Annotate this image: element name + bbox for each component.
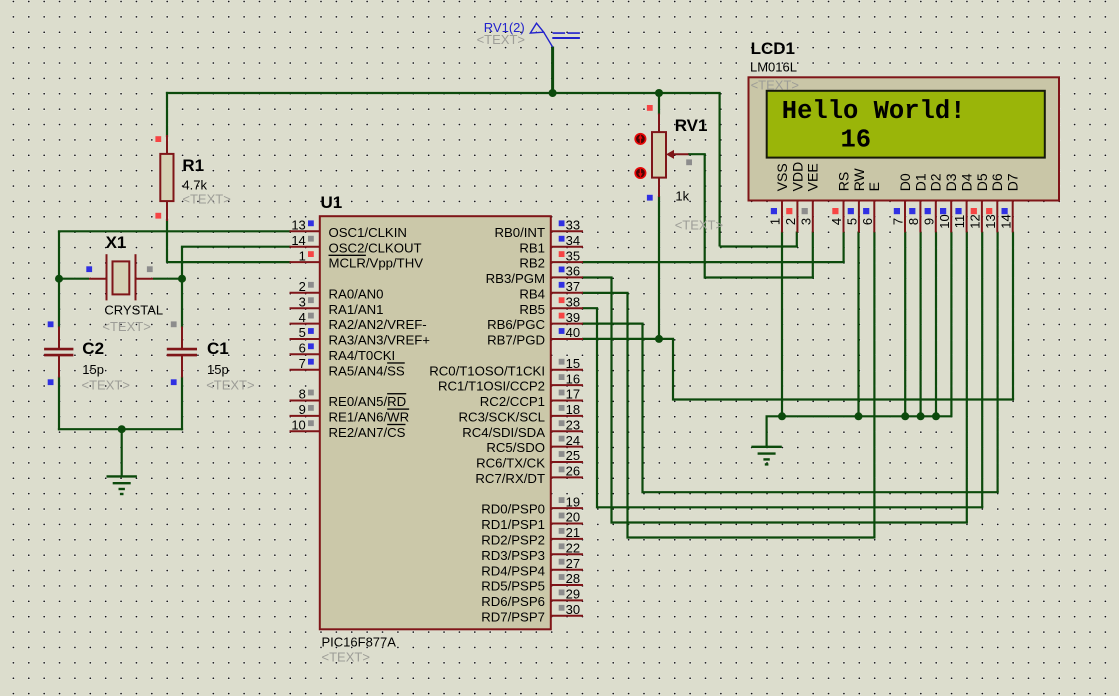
svg-text:30: 30 (566, 602, 580, 617)
svg-text:10: 10 (291, 417, 305, 432)
pin 8 D1 LCD (906, 173, 928, 232)
wire C1 bottom (181, 377, 183, 431)
svg-text:RD3/PSP3: RD3/PSP3 (481, 548, 545, 563)
svg-text:<TEXT>: <TEXT> (102, 319, 150, 334)
svg-text:34: 34 (566, 233, 580, 248)
svg-text:15: 15 (566, 356, 580, 371)
svg-text:2: 2 (299, 279, 306, 294)
svg-text:39: 39 (566, 310, 580, 325)
wire VEE horizontal to LCD pin 3 (705, 276, 814, 278)
svg-text:RC3/SCK/SCL: RC3/SCK/SCL (459, 409, 545, 424)
svg-text:RA1/AN1: RA1/AN1 (329, 302, 384, 317)
svg-text:<TEXT>: <TEXT> (675, 217, 723, 232)
pin 3 VEE LCD (798, 163, 820, 232)
wire RB6 vertical (641, 324, 643, 494)
wire LCD pin 6 riser (873, 232, 875, 538)
pin 25 RC6/TX/CK (476, 448, 583, 470)
svg-text:RC7/RX/DT: RC7/RX/DT (475, 471, 545, 486)
svg-text:CRYSTAL: CRYSTAL (104, 303, 163, 318)
RV1 voltage arrow down (635, 168, 645, 178)
svg-text:RE1/AN6/WR: RE1/AN6/WR (329, 409, 410, 424)
wire LCD VSS down to ground bus (781, 232, 783, 417)
svg-text:21: 21 (566, 525, 580, 540)
pin 27 RD4/PSP4 (481, 556, 583, 578)
junction RV1 bottom / RB7 wire (655, 335, 663, 343)
wire RB4 horizontal to E (628, 536, 876, 538)
pin 2 RA0/AN0 (290, 279, 384, 301)
wire RV1 bottom down to RB7 net (658, 196, 660, 339)
svg-text:RW: RW (851, 167, 867, 191)
LCD LCD1 LM016L body (749, 77, 1060, 200)
svg-text:Hello World!: Hello World! (782, 97, 966, 126)
svg-text:22: 22 (566, 540, 580, 555)
svg-text:16: 16 (841, 126, 872, 155)
svg-text:<TEXT>: <TEXT> (206, 378, 254, 393)
wire RB7 pin 40 out (582, 338, 674, 340)
pin 17 RC2/CCP1 (480, 387, 583, 409)
pin 23 RC4/SDI/SDA (462, 417, 583, 439)
wire LCD pin 2 drop (796, 232, 798, 247)
wire VDD horizontal to LCD pin 2 (720, 245, 798, 247)
svg-text:38: 38 (566, 294, 580, 309)
pot terminal marker RV1(2) (530, 23, 580, 47)
pin 36 RB3/PGM (486, 264, 583, 286)
pin 5 RW LCD (845, 167, 867, 232)
wire R1 bottom down (166, 219, 168, 263)
wire ground bus (766, 415, 953, 417)
wire LCD D0 down to ground bus (904, 232, 906, 417)
wire VEE riser vertical (704, 154, 706, 278)
junction ground bus RW (855, 412, 863, 420)
svg-text:D0: D0 (897, 173, 913, 191)
wire RB7 vertical (672, 339, 674, 401)
wire RB6 horizontal to D6 (643, 491, 999, 493)
svg-text:D2: D2 (928, 173, 944, 191)
svg-text:RB4: RB4 (519, 286, 545, 301)
svg-text:C2: C2 (82, 339, 104, 358)
wire R1 top to rail (166, 92, 168, 137)
pin 35 RB2 (519, 248, 583, 270)
wire crystal left node to X1 pin (59, 278, 89, 280)
capacitor C1 (167, 321, 197, 385)
pin 29 RD6/PSP6 (481, 587, 583, 609)
svg-text:VEE: VEE (805, 163, 821, 191)
ground symbol right (751, 447, 781, 465)
svg-text:RC6/TX/CK: RC6/TX/CK (476, 456, 545, 471)
svg-text:RE0/AN5/RD: RE0/AN5/RD (329, 394, 407, 409)
wire C2/C1 bottom link (58, 428, 183, 430)
svg-text:RE2/AN7/CS: RE2/AN7/CS (329, 425, 406, 440)
svg-text:LCD1: LCD1 (751, 39, 795, 58)
wire X1 pin to crystal right node (153, 278, 182, 280)
wire down to crystal right node (181, 247, 183, 279)
svg-text:RD2/PSP2: RD2/PSP2 (481, 533, 545, 548)
svg-text:MCLR/Vpp/THV: MCLR/Vpp/THV (329, 256, 424, 271)
wire RB7 horizontal to D7 (673, 398, 1014, 400)
resistor R1 (155, 135, 173, 221)
svg-text:11: 11 (952, 215, 967, 229)
svg-text:<TEXT>: <TEXT> (751, 77, 799, 92)
svg-text:PIC16F877A: PIC16F877A (322, 635, 397, 650)
wire down to crystal left node (58, 231, 60, 278)
svg-text:1k: 1k (675, 188, 689, 203)
pin 1 MCLR/Vpp/THV (290, 248, 424, 270)
svg-text:1: 1 (768, 218, 783, 225)
svg-text:RD4/PSP4: RD4/PSP4 (481, 563, 545, 578)
junction ground bus VSS (778, 412, 786, 420)
svg-text:40: 40 (566, 325, 580, 340)
pin 14 D7 LCD (998, 173, 1020, 232)
svg-text:6: 6 (860, 218, 875, 225)
svg-text:RB2: RB2 (519, 256, 545, 271)
IC U1 PIC16F877A body (320, 216, 551, 629)
svg-text:E: E (866, 182, 882, 191)
wire LCD D2 down to ground bus (935, 232, 937, 417)
svg-text:9: 9 (921, 218, 936, 225)
pin 22 RD3/PSP3 (481, 540, 583, 562)
svg-text:RC0/T1OSO/T1CKI: RC0/T1OSO/T1CKI (429, 363, 545, 378)
pin 11 D4 LCD (952, 173, 974, 232)
svg-text:8: 8 (906, 218, 921, 225)
pin 2 VDD LCD (783, 162, 805, 233)
svg-text:RD0/PSP0: RD0/PSP0 (481, 502, 545, 517)
pin 6 E LCD (860, 182, 882, 232)
svg-text:RB5: RB5 (519, 302, 545, 317)
wire C2 bottom (58, 377, 60, 431)
pin 9 D2 LCD (921, 173, 943, 232)
svg-text:RV1: RV1 (675, 116, 708, 135)
pin 3 RA1/AN1 (290, 294, 384, 316)
wire RB3 vertical (610, 278, 612, 524)
ground symbol left (107, 476, 137, 494)
crystal X1 (86, 254, 153, 300)
pin 28 RD5/PSP5 (481, 571, 583, 593)
wire RB4 pin 37 out (582, 292, 629, 294)
pin 19 RD0/PSP0 (481, 494, 583, 516)
svg-text:4.7k: 4.7k (182, 178, 207, 193)
svg-text:24: 24 (566, 433, 580, 448)
wire VDD riser vertical (718, 93, 720, 247)
svg-text:RA4/T0CKI: RA4/T0CKI (329, 348, 396, 363)
svg-text:VSS: VSS (774, 163, 790, 191)
svg-text:R1: R1 (182, 156, 204, 175)
svg-text:LM016L: LM016L (750, 60, 797, 75)
pin 15 RC0/T1OSO/T1CKI (429, 356, 583, 378)
junction crystal left / C2 (55, 275, 63, 283)
pin 34 RB1 (519, 233, 583, 255)
svg-text:D3: D3 (943, 173, 959, 191)
wire LCD pin 3 drop (812, 232, 814, 278)
svg-text:RC4/SDI/SDA: RC4/SDI/SDA (462, 425, 545, 440)
svg-text:<TEXT>: <TEXT> (182, 192, 230, 207)
wire RB3 pin 36 out (582, 276, 613, 278)
junction ground bus D1 (917, 412, 925, 420)
wire LCD pin 11 riser (966, 232, 968, 523)
svg-text:29: 29 (566, 587, 580, 602)
svg-text:VDD: VDD (789, 162, 805, 192)
svg-text:OSC2/CLKOUT: OSC2/CLKOUT (329, 240, 422, 255)
svg-text:5: 5 (299, 325, 306, 340)
svg-text:16: 16 (566, 371, 580, 386)
svg-text:RD6/PSP6: RD6/PSP6 (481, 594, 545, 609)
svg-text:<TEXT>: <TEXT> (322, 650, 370, 665)
pin 16 RC1/T1OSI/CCP2 (438, 371, 583, 393)
svg-text:2: 2 (783, 218, 798, 225)
wire RB2 pin 35 to LCD RS (582, 261, 845, 263)
pin 6 RA4/T0CKI (290, 341, 396, 363)
pin 30 RD7/PSP7 (481, 602, 583, 624)
wire LCD pin 13 riser (996, 232, 998, 493)
svg-text:X1: X1 (106, 233, 127, 252)
wire LCD D1 down to ground bus (919, 232, 921, 417)
wire ground bus stem (765, 416, 767, 446)
svg-text:OSC1/CLKIN: OSC1/CLKIN (329, 225, 407, 240)
svg-text:C1: C1 (207, 339, 229, 358)
svg-text:25: 25 (566, 448, 580, 463)
wire LCD RW down to ground bus (857, 232, 859, 417)
svg-text:RB1: RB1 (519, 240, 545, 255)
pin 9 RE1/AN6/WR (290, 402, 410, 424)
pin 10 D3 LCD (937, 173, 959, 232)
svg-text:RC2/CCP1: RC2/CCP1 (480, 394, 545, 409)
svg-text:D4: D4 (959, 173, 975, 191)
svg-text:35: 35 (566, 248, 580, 263)
wire LCD pin 4 drop (842, 232, 844, 263)
svg-text:5: 5 (845, 218, 860, 225)
wire RV1(2) stub to rail (551, 47, 554, 94)
wire R1 to MCLR pin 1 (167, 261, 291, 263)
svg-text:13: 13 (983, 214, 998, 228)
junction RV1 top/rail (655, 89, 663, 97)
pin 13 D6 LCD (983, 173, 1005, 232)
svg-text:3: 3 (798, 218, 813, 225)
pin 33 RB0/INT (494, 218, 583, 240)
wire LCD pin 12 riser (981, 232, 983, 508)
svg-text:20: 20 (566, 510, 580, 525)
wire wiper to VEE riser (688, 153, 706, 155)
svg-text:7: 7 (891, 218, 906, 225)
svg-text:8: 8 (299, 387, 306, 402)
wire stem to ground (121, 429, 123, 475)
svg-text:23: 23 (566, 417, 580, 432)
svg-text:10: 10 (937, 214, 952, 228)
svg-text:RD5/PSP5: RD5/PSP5 (481, 579, 545, 594)
svg-text:RD7/PSP7: RD7/PSP7 (481, 609, 545, 624)
pin 12 D5 LCD (968, 173, 990, 232)
wire pin 13 OSC1 to crystal left (58, 230, 291, 232)
wire RB6 pin 39 out (582, 323, 644, 325)
pin 7 RA5/AN4/SS (290, 356, 405, 378)
svg-text:14: 14 (998, 214, 1013, 228)
pin 8 RE0/AN5/RD (290, 387, 407, 409)
wire LCD D3 down to ground bus (950, 232, 952, 418)
svg-text:13: 13 (291, 218, 305, 233)
svg-text:RD1/PSP1: RD1/PSP1 (481, 517, 545, 532)
svg-text:7: 7 (299, 356, 306, 371)
junction ground stem (118, 425, 126, 433)
svg-text:RB6/PGC: RB6/PGC (487, 317, 545, 332)
svg-text:4: 4 (829, 218, 844, 225)
pin 4 RS LCD (829, 172, 851, 233)
pin 5 RA3/AN3/VREF+ (290, 325, 431, 347)
potentiometer RV1 (647, 105, 692, 201)
pin 20 RD1/PSP1 (481, 510, 583, 532)
svg-text:26: 26 (566, 464, 580, 479)
junction ground bus D0 (901, 412, 909, 420)
svg-text:17: 17 (566, 387, 580, 402)
svg-text:3: 3 (299, 294, 306, 309)
pin 1 VSS LCD (768, 163, 790, 232)
svg-text:RC5/SDO: RC5/SDO (486, 440, 545, 455)
svg-text:15p: 15p (82, 362, 104, 377)
svg-text:14: 14 (291, 233, 305, 248)
pin 38 RB5 (519, 294, 583, 316)
svg-text:<TEXT>: <TEXT> (82, 378, 130, 393)
junction RV1(2)/rail (549, 89, 557, 97)
pin 24 RC5/SDO (486, 433, 583, 455)
svg-text:D7: D7 (1005, 173, 1021, 191)
svg-text:D1: D1 (912, 173, 928, 191)
svg-text:U1: U1 (321, 193, 343, 212)
wire RB5 pin 38 out (582, 307, 598, 309)
junction crystal right / C1 (178, 275, 186, 283)
pin 13 OSC1/CLKIN (290, 218, 407, 240)
svg-text:RC1/T1OSI/CCP2: RC1/T1OSI/CCP2 (438, 379, 545, 394)
svg-text:6: 6 (299, 341, 306, 356)
pin 10 RE2/AN7/CS (290, 417, 406, 439)
wire LCD pin 14 riser (1012, 232, 1014, 400)
junction ground bus D2 (932, 412, 940, 420)
svg-text:37: 37 (566, 279, 580, 294)
svg-text:4: 4 (299, 310, 306, 325)
svg-text:27: 27 (566, 556, 580, 571)
pin 14 OSC2/CLKOUT (290, 233, 422, 255)
wire rail to RV1 top pin (658, 93, 660, 115)
svg-text:<TEXT>: <TEXT> (477, 32, 525, 47)
svg-text:RA3/AN3/VREF+: RA3/AN3/VREF+ (329, 333, 431, 348)
pin 40 RB7/PGD (487, 325, 583, 347)
pin 21 RD2/PSP2 (481, 525, 583, 547)
svg-text:RS: RS (835, 172, 851, 191)
svg-text:12: 12 (968, 214, 983, 228)
pin 37 RB4 (519, 279, 583, 301)
RV1 voltage arrow up (635, 134, 645, 144)
wire C1 top (181, 279, 183, 328)
wire RB5 horizontal to D5 (597, 506, 983, 508)
svg-text:33: 33 (566, 218, 580, 233)
wire +5V rail from R1 top to LCD VDD riser (166, 92, 721, 94)
svg-text:RB7/PGD: RB7/PGD (487, 333, 545, 348)
svg-text:RB3/PGM: RB3/PGM (486, 271, 545, 286)
svg-text:9: 9 (299, 402, 306, 417)
wire pin 14 OSC2 (181, 246, 291, 248)
svg-text:28: 28 (566, 571, 580, 586)
svg-text:36: 36 (566, 264, 580, 279)
svg-text:RA5/AN4/SS: RA5/AN4/SS (329, 363, 405, 378)
svg-text:18: 18 (566, 402, 580, 417)
wire C2 top (58, 279, 60, 328)
pin 26 RC7/RX/DT (475, 464, 583, 486)
svg-text:19: 19 (566, 494, 580, 509)
svg-text:15p: 15p (207, 362, 229, 377)
svg-text:D6: D6 (989, 173, 1005, 191)
svg-text:RA0/AN0: RA0/AN0 (329, 286, 384, 301)
svg-text:RB0/INT: RB0/INT (494, 225, 545, 240)
pin 18 RC3/SCK/SCL (459, 402, 583, 424)
LCD screen (767, 91, 1045, 158)
svg-text:D5: D5 (974, 173, 990, 191)
capacitor C2 (44, 321, 73, 385)
svg-text:RA2/AN2/VREF-: RA2/AN2/VREF- (329, 317, 427, 332)
wire RB4 vertical (626, 293, 628, 539)
svg-text:1: 1 (299, 248, 306, 263)
pin 7 D0 LCD (891, 173, 913, 232)
pin 4 RA2/AN2/VREF- (290, 310, 427, 332)
wire RB3 horizontal to D4 (612, 521, 968, 523)
pin 39 RB6/PGC (487, 310, 583, 332)
wire RB5 vertical (596, 308, 598, 508)
